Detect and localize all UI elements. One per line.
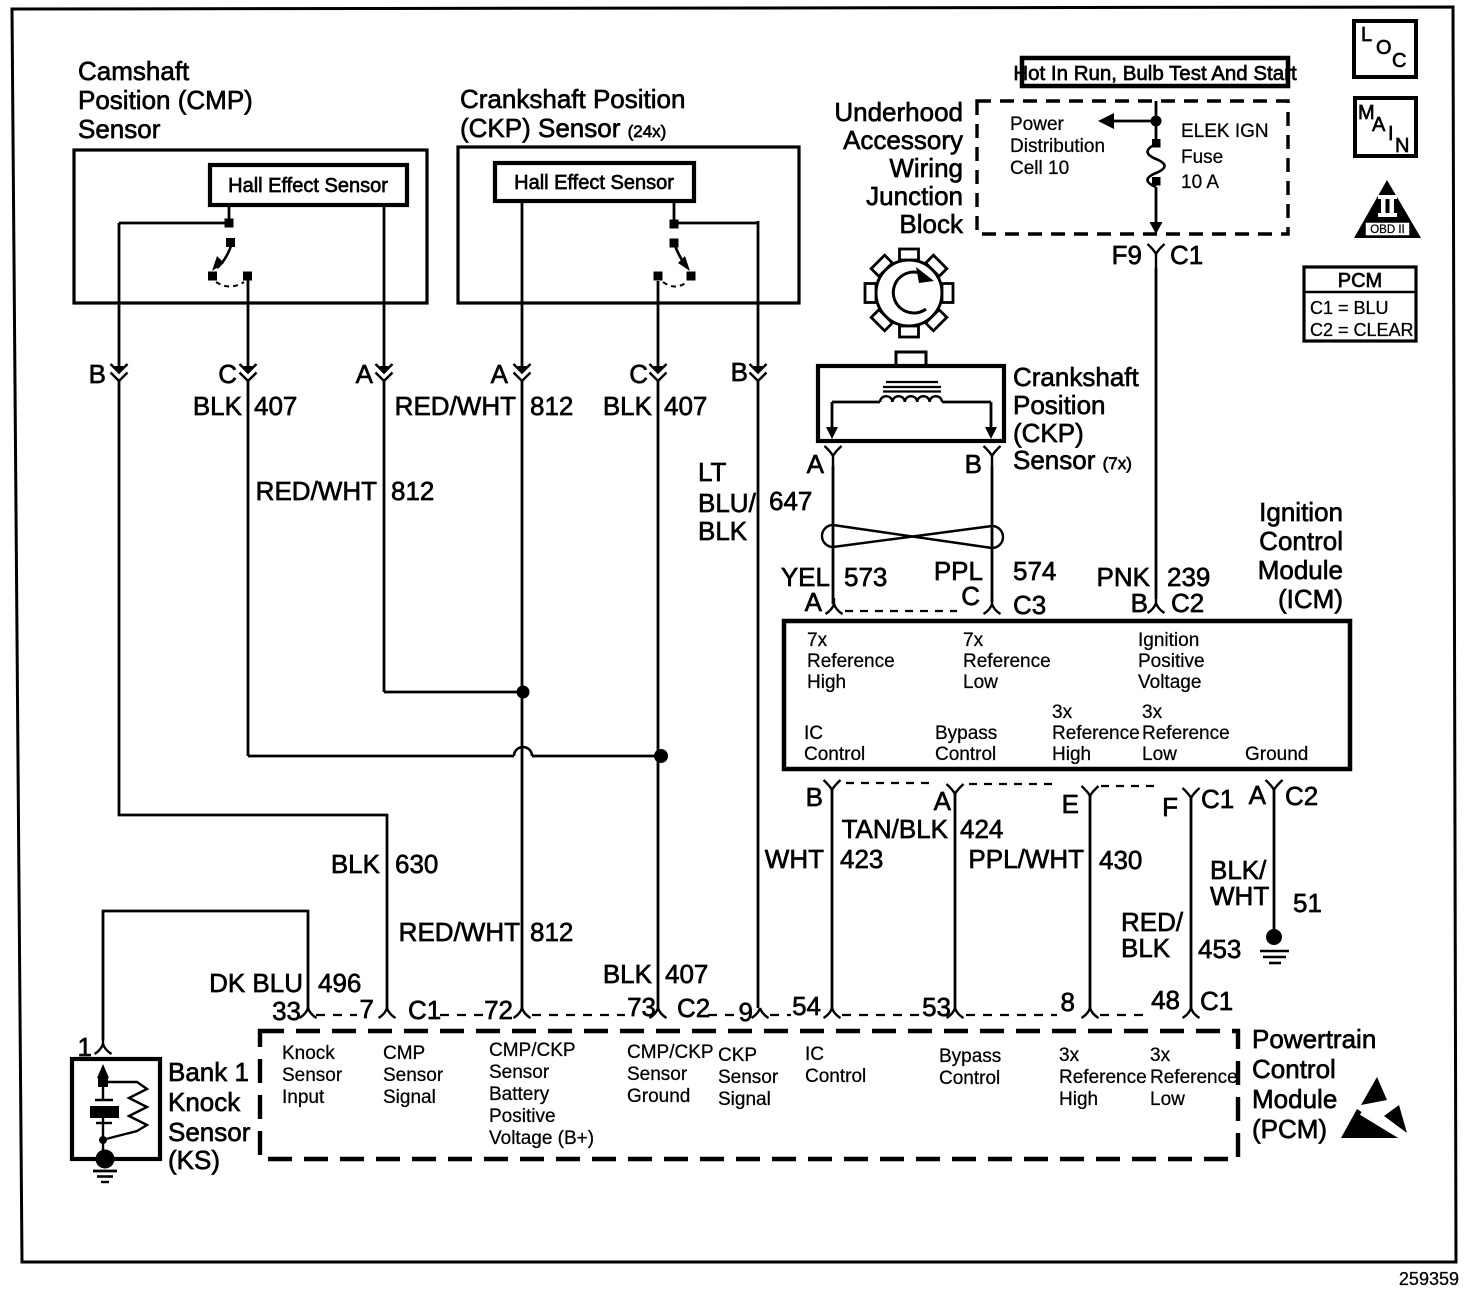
svg-text:(CKP): (CKP) <box>1013 418 1084 448</box>
svg-text:Ignition: Ignition <box>1138 630 1199 651</box>
svg-text:Hot In Run, Bulb Test And Star: Hot In Run, Bulb Test And Start <box>1013 62 1297 85</box>
svg-text:OBD II: OBD II <box>1370 224 1405 236</box>
wire CMP pin B (BLK 630) <box>118 223 121 367</box>
svg-text:Ignition: Ignition <box>1259 497 1343 527</box>
svg-text:I: I <box>1388 123 1394 145</box>
svg-text:Sensor: Sensor <box>627 1064 688 1085</box>
svg-text:Fuse: Fuse <box>1181 147 1223 168</box>
svg-text:Accessory: Accessory <box>843 125 963 155</box>
svg-text:3x: 3x <box>1052 702 1073 723</box>
svg-text:WHT: WHT <box>1210 881 1269 911</box>
svg-text:Input: Input <box>282 1087 325 1108</box>
CKP 7x core lines <box>886 381 938 383</box>
wire CKP pin A RED/WHT 812 <box>521 201 524 367</box>
wire CMP internal B <box>119 222 229 225</box>
svg-text:Sensor: Sensor <box>718 1067 779 1088</box>
svg-text:496: 496 <box>318 968 361 998</box>
svg-text:9: 9 <box>739 997 753 1027</box>
svg-text:573: 573 <box>844 562 887 592</box>
wire YEL 573 <box>832 466 835 604</box>
connector pin A (CMP) <box>380 366 389 374</box>
svg-text:B: B <box>1131 588 1148 618</box>
ICM connector dashed line <box>845 610 957 612</box>
wire from hot feed <box>1155 101 1158 144</box>
svg-text:51: 51 <box>1293 888 1322 918</box>
svg-text:B: B <box>731 357 748 387</box>
KS node pads <box>98 1077 108 1087</box>
svg-text:C1: C1 <box>1201 784 1234 814</box>
svg-text:C1: C1 <box>1200 986 1233 1016</box>
svg-text:53: 53 <box>922 992 951 1022</box>
underhood accessory wiring junction block (dashed) <box>977 101 1288 234</box>
wire hop over RED/WHT <box>514 747 532 756</box>
svg-text:CMP/CKP: CMP/CKP <box>489 1040 576 1061</box>
junction node at fuse <box>1151 116 1162 127</box>
svg-text:Position: Position <box>1013 390 1106 420</box>
KS case ground <box>96 1150 115 1169</box>
svg-text:73: 73 <box>627 992 656 1022</box>
svg-text:C2 = CLEAR: C2 = CLEAR <box>1310 320 1414 340</box>
PCM pin 72 <box>514 1008 531 1018</box>
svg-text:430: 430 <box>1099 845 1142 875</box>
CKP 7x pickup coil L1 <box>880 396 942 402</box>
svg-text:C1: C1 <box>1170 240 1203 270</box>
ESD symbol <box>1361 1077 1387 1105</box>
svg-text:10 A: 10 A <box>1181 172 1219 193</box>
svg-text:A: A <box>934 786 952 816</box>
PCM connector legend <box>1304 267 1416 341</box>
svg-text:C3: C3 <box>1013 590 1046 620</box>
svg-text:CKP: CKP <box>718 1045 757 1066</box>
svg-text:C: C <box>218 359 237 389</box>
svg-text:BLU/: BLU/ <box>698 488 757 518</box>
svg-text:407: 407 <box>254 391 297 421</box>
svg-text:Reference: Reference <box>1150 1067 1238 1088</box>
svg-text:N: N <box>1395 135 1409 157</box>
svg-text:BLK: BLK <box>331 849 381 879</box>
label box Hot In Run, Bulb Test And Start <box>1022 58 1288 86</box>
svg-text:Sensor: Sensor <box>78 114 161 144</box>
svg-text:Knock: Knock <box>168 1087 241 1117</box>
svg-text:Crankshaft Position: Crankshaft Position <box>460 84 685 114</box>
bank 1 knock sensor KS box <box>72 1059 160 1159</box>
LOC tag <box>1354 21 1416 77</box>
wire RED/BLK 453 <box>1190 798 1193 1008</box>
junction node RED/WHT <box>517 686 530 699</box>
svg-text:Cell 10: Cell 10 <box>1010 158 1069 179</box>
svg-text:453: 453 <box>1198 934 1241 964</box>
crankshaft position sensor CKP 7x box <box>818 366 1004 441</box>
svg-text:RED/WHT: RED/WHT <box>399 917 520 947</box>
svg-text:F9: F9 <box>1112 240 1142 270</box>
svg-text:Battery: Battery <box>489 1084 550 1105</box>
svg-text:Module: Module <box>1252 1084 1337 1114</box>
svg-text:424: 424 <box>960 814 1003 844</box>
svg-text:812: 812 <box>530 917 573 947</box>
svg-text:Crankshaft: Crankshaft <box>1013 362 1139 392</box>
svg-text:574: 574 <box>1013 556 1056 586</box>
twisted pair symbol <box>822 525 833 547</box>
svg-text:Control: Control <box>1259 526 1343 556</box>
CKP switch pivot pads <box>670 220 679 229</box>
svg-text:Sensor (7x): Sensor (7x) <box>1013 445 1132 475</box>
KS piezo element <box>95 1099 113 1101</box>
ground G101 <box>1266 929 1282 945</box>
svg-text:C2: C2 <box>1285 781 1318 811</box>
svg-text:ELEK IGN: ELEK IGN <box>1181 121 1269 142</box>
svg-text:Control: Control <box>804 744 865 765</box>
svg-text:PPL/WHT: PPL/WHT <box>968 844 1084 874</box>
svg-text:Sensor: Sensor <box>489 1062 550 1083</box>
KS internal arrow <box>97 1064 109 1078</box>
PCM pin 33 <box>300 1008 317 1018</box>
connector pin B (CKP) <box>754 366 763 374</box>
wire CKP pin C BLK 407 <box>657 281 660 367</box>
svg-text:High: High <box>1059 1089 1098 1110</box>
svg-text:Block: Block <box>899 209 964 239</box>
svg-text:Junction: Junction <box>866 181 963 211</box>
CKP switch arm <box>675 246 686 266</box>
svg-text:Knock: Knock <box>282 1043 335 1064</box>
svg-text:259359: 259359 <box>1399 1269 1459 1289</box>
svg-text:A: A <box>1249 780 1267 810</box>
PCM pin 54 <box>824 1008 841 1018</box>
svg-text:BLK: BLK <box>1121 933 1171 963</box>
svg-text:C: C <box>961 581 980 611</box>
svg-text:L: L <box>1361 24 1372 46</box>
svg-text:Wiring: Wiring <box>889 153 963 183</box>
svg-text:Ground: Ground <box>627 1086 690 1107</box>
connector pin C (CMP) <box>244 366 253 374</box>
svg-text:C1 = BLU: C1 = BLU <box>1310 298 1389 318</box>
PCM connector dashed line <box>316 1014 357 1016</box>
svg-text:812: 812 <box>530 391 573 421</box>
PCM pin 8 <box>1082 1008 1099 1018</box>
svg-text:Reference: Reference <box>1142 723 1230 744</box>
svg-text:A: A <box>807 449 825 479</box>
connector pin A (CKP) <box>518 366 527 374</box>
svg-text:Reference: Reference <box>1052 723 1140 744</box>
svg-text:B: B <box>965 449 982 479</box>
wire CMP pin A RED/WHT 812 <box>383 205 386 367</box>
svg-text:DK BLU: DK BLU <box>209 968 303 998</box>
reluctor wheel symbol <box>865 249 953 337</box>
svg-text:C: C <box>629 359 648 389</box>
svg-text:Module: Module <box>1258 555 1343 585</box>
svg-text:647: 647 <box>769 486 812 516</box>
svg-text:High: High <box>1052 744 1091 765</box>
power distribution arrow <box>1112 120 1156 123</box>
svg-text:BLK: BLK <box>603 391 653 421</box>
svg-text:Sensor: Sensor <box>282 1065 343 1086</box>
svg-text:A: A <box>356 359 374 389</box>
svg-text:407: 407 <box>664 391 707 421</box>
CKP 7x coil leads <box>832 401 880 404</box>
svg-text:A: A <box>1372 114 1386 136</box>
wire fuse output <box>1155 187 1158 222</box>
svg-text:C: C <box>1392 50 1406 72</box>
svg-text:Bypass: Bypass <box>939 1046 1001 1067</box>
connector pin B (CMP) <box>115 366 124 374</box>
svg-text:Ground: Ground <box>1245 744 1308 765</box>
svg-text:8: 8 <box>1061 987 1075 1017</box>
svg-text:BLK: BLK <box>193 391 243 421</box>
svg-text:Underhood: Underhood <box>834 97 963 127</box>
svg-text:Voltage (B+): Voltage (B+) <box>489 1128 594 1149</box>
svg-text:33: 33 <box>272 996 301 1026</box>
svg-text:423: 423 <box>840 844 883 874</box>
svg-text:Reference: Reference <box>1059 1067 1147 1088</box>
svg-text:812: 812 <box>391 476 434 506</box>
svg-text:BLK: BLK <box>603 959 653 989</box>
powertrain control module PCM box (dashed) <box>260 1031 1238 1159</box>
svg-text:C2: C2 <box>677 993 710 1023</box>
svg-text:7: 7 <box>360 994 374 1024</box>
svg-text:72: 72 <box>484 995 513 1025</box>
svg-text:IC: IC <box>805 1044 824 1065</box>
svg-text:TAN/BLK: TAN/BLK <box>842 814 949 844</box>
svg-text:48: 48 <box>1151 985 1180 1015</box>
PCM pin 48 <box>1183 1008 1200 1018</box>
svg-text:Hall Effect Sensor: Hall Effect Sensor <box>228 175 388 197</box>
CKP sensor (7x) mounting tab <box>896 352 926 366</box>
CMP switch contact pads <box>208 272 217 281</box>
svg-text:A: A <box>805 587 823 617</box>
camshaft position sensor CMP box <box>74 150 427 303</box>
fuse ELEK IGN 10 A <box>1152 139 1161 148</box>
CKP hall sensor lead <box>673 201 676 220</box>
svg-text:Control: Control <box>1252 1054 1336 1084</box>
svg-text:Control: Control <box>935 744 996 765</box>
wire CMP pin C BLK 407 <box>247 280 250 367</box>
svg-text:Low: Low <box>963 672 998 693</box>
svg-text:Distribution: Distribution <box>1010 136 1105 157</box>
PCM pin 9 <box>752 1008 769 1018</box>
PCM pin 73 <box>650 1008 667 1018</box>
CMP switch arm <box>217 246 231 268</box>
svg-text:630: 630 <box>395 849 438 879</box>
wire PNK 239 <box>1155 268 1158 599</box>
OBD II symbol <box>1354 180 1421 238</box>
svg-text:B: B <box>89 359 106 389</box>
CKP switch throw (dashed arc) <box>663 282 687 287</box>
junction node BLK 407 <box>654 749 668 763</box>
svg-text:O: O <box>1376 37 1392 59</box>
svg-text:CMP: CMP <box>383 1043 425 1064</box>
CMP switch pivot pads <box>225 219 234 228</box>
svg-text:RED/WHT: RED/WHT <box>395 391 516 421</box>
svg-text:CMP/CKP: CMP/CKP <box>627 1042 714 1063</box>
svg-text:Positive: Positive <box>489 1106 556 1127</box>
PCM pin 7 <box>379 1008 396 1018</box>
hall effect sensor (CMP) <box>210 165 407 205</box>
wire CKP pin B LT BLU/BLK 647 <box>757 221 760 367</box>
svg-text:Control: Control <box>939 1068 1000 1089</box>
svg-text:E: E <box>1062 789 1079 819</box>
svg-text:Sensor: Sensor <box>383 1065 444 1086</box>
connector pin C (CKP) <box>654 366 663 374</box>
svg-text:Voltage: Voltage <box>1138 672 1201 693</box>
svg-text:C1: C1 <box>408 995 441 1025</box>
svg-text:PCM: PCM <box>1338 270 1382 292</box>
svg-text:407: 407 <box>665 959 708 989</box>
wire PPL 574 <box>991 466 994 602</box>
svg-text:3x: 3x <box>1150 1045 1171 1066</box>
crankshaft position sensor CKP 24x box <box>458 147 799 303</box>
svg-text:Reference: Reference <box>963 651 1051 672</box>
svg-text:BLK: BLK <box>698 516 748 546</box>
svg-text:Position (CMP): Position (CMP) <box>78 85 253 115</box>
svg-text:RED/WHT: RED/WHT <box>256 476 377 506</box>
svg-text:Low: Low <box>1150 1089 1185 1110</box>
svg-text:Power: Power <box>1010 114 1065 135</box>
svg-text:(ICM): (ICM) <box>1278 584 1343 614</box>
svg-text:C2: C2 <box>1171 588 1204 618</box>
svg-text:IC: IC <box>804 723 823 744</box>
wire CKP internal B <box>674 222 758 225</box>
svg-text:7x: 7x <box>807 630 828 651</box>
CKP switch contact pads <box>654 272 663 281</box>
svg-text:Control: Control <box>805 1066 866 1087</box>
svg-text:(PCM): (PCM) <box>1252 1114 1327 1144</box>
svg-text:7x: 7x <box>963 630 984 651</box>
svg-text:Reference: Reference <box>807 651 895 672</box>
wire BLK/WHT 51 <box>1273 790 1276 930</box>
svg-text:High: High <box>807 672 846 693</box>
svg-text:Powertrain: Powertrain <box>1252 1024 1376 1054</box>
hall effect sensor (CKP) <box>495 163 694 201</box>
wire PPL/WHT 430 <box>1089 796 1092 1008</box>
svg-text:Sensor: Sensor <box>168 1117 251 1147</box>
svg-text:LT: LT <box>698 457 727 487</box>
wire WHT 423 <box>831 790 834 1008</box>
svg-text:Positive: Positive <box>1138 651 1205 672</box>
svg-text:A: A <box>491 359 509 389</box>
PCM pin 53 <box>947 1008 964 1018</box>
CMP switch throw (dashed arc) <box>216 282 244 287</box>
KS shunt resistor <box>106 1082 147 1139</box>
svg-text:Camshaft: Camshaft <box>78 56 190 86</box>
svg-text:54: 54 <box>792 991 821 1021</box>
CMP hall sensor lead <box>228 205 231 222</box>
ICM bottom connector dashed line <box>846 782 930 784</box>
svg-text:Hall Effect Sensor: Hall Effect Sensor <box>514 172 674 194</box>
svg-text:Bank 1: Bank 1 <box>168 1057 249 1087</box>
svg-text:Low: Low <box>1142 744 1177 765</box>
svg-text:WHT: WHT <box>765 844 824 874</box>
svg-text:F: F <box>1162 792 1178 822</box>
wire DK BLU 496 <box>102 911 105 1040</box>
svg-text:Signal: Signal <box>383 1087 436 1108</box>
wire TAN/BLK 424 <box>954 794 957 1008</box>
svg-text:(CKP) Sensor (24x): (CKP) Sensor (24x) <box>460 113 666 143</box>
MAIN tag <box>1355 98 1416 156</box>
svg-text:(KS): (KS) <box>168 1145 220 1175</box>
ignition control module ICM box <box>784 621 1350 769</box>
svg-text:B: B <box>806 782 823 812</box>
svg-text:Bypass: Bypass <box>935 723 997 744</box>
svg-text:3x: 3x <box>1142 702 1163 723</box>
svg-text:3x: 3x <box>1059 1045 1080 1066</box>
svg-text:Signal: Signal <box>718 1089 771 1110</box>
